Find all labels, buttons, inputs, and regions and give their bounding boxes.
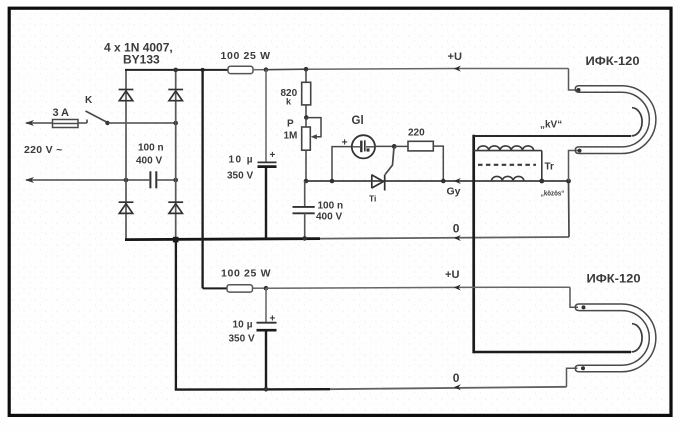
svg-text:Tr: Tr — [545, 162, 555, 173]
wire +U to bottom lamp anode — [570, 287, 578, 307]
node switch-bridge junction — [173, 121, 178, 126]
resistor R1 100 25W (top) — [228, 66, 253, 73]
diode D1 — [119, 90, 134, 101]
transformer Tr core — [478, 164, 536, 166]
wire switch to bridge — [108, 122, 176, 124]
svg-text:400 V: 400 V — [136, 156, 162, 167]
svg-text:220 V ~: 220 V ~ — [24, 144, 63, 156]
svg-text:„kV“: „kV“ — [540, 120, 562, 131]
node positive dropper junction — [201, 68, 205, 72]
node R4 output — [264, 286, 269, 291]
svg-text:+U: +U — [445, 269, 460, 281]
svg-text:3A: 3A — [53, 107, 70, 119]
svg-text:+U: +U — [448, 51, 463, 63]
node bottom lamp anode electrode — [582, 305, 586, 309]
flash lamp EL2 tube (bottom) — [575, 304, 656, 372]
neon lamp Gl — [352, 135, 375, 158]
node pot bottom — [304, 179, 309, 184]
trigger wire kV (top lamp) — [474, 135, 631, 137]
node R3 to cathode wire — [441, 179, 446, 184]
wire 0 rail (top channel, dark part) — [320, 237, 569, 239]
wire trigger line (thyristor anode wire) — [306, 180, 569, 182]
trigger wire (bottom lamp) — [474, 351, 631, 354]
svg-text:350 V: 350 V — [227, 171, 253, 182]
svg-text:ИФК-120: ИФК-120 — [586, 54, 640, 68]
node top lamp anode electrode — [577, 88, 581, 92]
wire bridge left column — [125, 70, 127, 240]
arrow AC terminal 1 — [25, 120, 34, 126]
wire top lamp cathode lead — [569, 151, 578, 182]
wire neon right to gate node — [374, 145, 394, 147]
svg-text:+: + — [270, 150, 276, 161]
svg-text:0: 0 — [453, 222, 460, 236]
svg-text:10 µ: 10 µ — [233, 320, 253, 331]
wire R1 to node — [253, 69, 266, 71]
wire gate lead — [385, 147, 394, 174]
svg-text:100 n: 100 n — [138, 143, 164, 154]
thyristor Ti — [372, 175, 385, 191]
svg-text:10 µ: 10 µ — [229, 155, 253, 166]
wire +U to top lamp anode — [569, 69, 578, 91]
wire AC input line 2 — [26, 179, 149, 181]
node kozos junction — [539, 179, 544, 184]
node AC2-left column — [124, 178, 129, 183]
diode D2 — [168, 90, 183, 101]
svg-text:400 V: 400 V — [316, 212, 342, 223]
wire bottom lamp cathode lead — [567, 368, 578, 387]
node R2-P junction — [304, 115, 309, 120]
switch K — [86, 111, 108, 123]
node bottom lamp cathode electrode — [581, 366, 585, 370]
svg-text:220: 220 — [408, 128, 425, 139]
svg-text:0: 0 — [453, 371, 460, 385]
node AC2-right column — [173, 178, 178, 183]
trigger box left edge (kV wire down) — [472, 135, 475, 353]
node gate — [392, 144, 397, 149]
resistor R4 100 25W (bottom) — [203, 285, 266, 292]
wire 0 rail bottom (dark part) — [175, 388, 330, 391]
node C4 bottom — [264, 387, 269, 392]
wire bridge right column — [175, 70, 177, 240]
svg-text:Gy: Gy — [447, 186, 461, 198]
wire bridge top rail — [125, 69, 228, 71]
fuse 3A — [53, 120, 79, 128]
capacitor C2 10u 350V (top) — [258, 70, 277, 239]
svg-text:1M: 1M — [284, 131, 298, 142]
transformer Tr secondary — [474, 146, 542, 181]
capacitor C3 100n 400V (trigger) — [293, 181, 315, 238]
svg-text:Gl: Gl — [352, 115, 364, 127]
arrow 0 (bottom) — [454, 384, 461, 390]
svg-text:+: + — [270, 314, 276, 325]
arrow Gy — [454, 178, 461, 184]
potentiometer P 1M — [302, 118, 321, 182]
wire neon left branch — [332, 147, 351, 181]
transformer Tr primary — [492, 176, 524, 181]
svg-text:BY133: BY133 — [123, 53, 160, 67]
resistor R2 820k — [302, 69, 311, 117]
node neon branch bottom — [330, 179, 335, 184]
diode D4 — [168, 202, 183, 213]
wire bridge bottom rail — [125, 239, 320, 240]
svg-text:ИФК-120: ИФК-120 — [587, 272, 641, 286]
svg-text:„közös“: „közös“ — [541, 189, 565, 198]
arrow +U (top) — [454, 66, 461, 72]
node top lamp cathode electrode — [578, 149, 582, 153]
wire +U rail bottom — [266, 287, 570, 288]
wire +U rail top — [266, 68, 306, 71]
node bridge positive — [173, 68, 178, 73]
capacitor C4 10u 350V (bottom) — [257, 288, 277, 389]
resistor R3 220 — [394, 141, 443, 181]
svg-text:K: K — [85, 95, 93, 106]
node common-cathode — [566, 179, 571, 184]
arrow AC terminal 2 — [25, 177, 34, 183]
node C3 bottom — [302, 236, 307, 241]
wire 0 rail bottom (gray part) — [330, 387, 567, 389]
svg-text:100 25 W: 100 25 W — [221, 50, 271, 62]
arrow +U (bottom) — [454, 285, 461, 291]
node 820k tap — [304, 67, 309, 72]
node bridge negative junction — [173, 237, 179, 243]
arrow 0 (top) — [454, 235, 461, 241]
flash lamp EL1 tube (top) — [575, 86, 656, 154]
svg-text:+: + — [342, 137, 348, 149]
svg-text:Ti: Ti — [369, 194, 376, 204]
svg-text:350 V: 350 V — [229, 334, 255, 345]
svg-text:P: P — [287, 119, 294, 130]
wire 0 rail corner up to common — [568, 181, 571, 237]
svg-text:100 n: 100 n — [318, 201, 344, 212]
wire AC input line 1 (fuse feed) — [26, 122, 87, 124]
wire positive dropper to lower channel — [201, 70, 203, 289]
svg-text:100 25 W: 100 25 W — [221, 268, 271, 280]
wire negative dropper to lower channel — [175, 240, 177, 390]
capacitor 100n 400V (bridge) — [150, 171, 156, 188]
node R1 output — [264, 67, 269, 72]
diode D3 — [119, 202, 134, 213]
